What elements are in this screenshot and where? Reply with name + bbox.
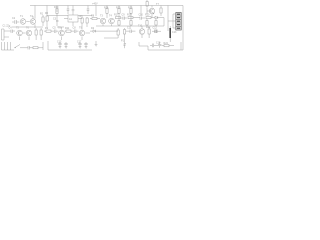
wire C9 bbox=[121, 17, 127, 19]
wire R23 bbox=[38, 42, 43, 50]
wire T7 collector bbox=[151, 6, 153, 8]
resistor R6 vertical bbox=[81, 18, 83, 23]
transistor T5 internals bbox=[18, 31, 21, 36]
wire right edge bus bbox=[182, 6, 184, 51]
wire signal bus upper bbox=[47, 15, 92, 17]
svg-text:R22: R22 bbox=[146, 26, 151, 29]
wire J2 bus bbox=[2, 49, 15, 51]
capacitor C17 to ground bbox=[78, 42, 81, 47]
wire R3 bbox=[35, 28, 37, 40]
capacitor C3 bbox=[56, 21, 58, 22]
connector pins J2 bbox=[2, 42, 11, 50]
resistor R3 vertical bbox=[35, 30, 37, 35]
wire mid bus bbox=[133, 17, 140, 19]
svg-text:R15: R15 bbox=[116, 6, 121, 9]
wire C5 bbox=[56, 30, 59, 32]
wire signal bus lower-left bbox=[12, 26, 64, 28]
svg-text:R14: R14 bbox=[104, 6, 109, 9]
wire fuse feed bbox=[146, 0, 148, 8]
resistor R16b vertical bbox=[130, 21, 132, 26]
transistor T7 internals bbox=[151, 9, 154, 15]
resistor R21 vertical bbox=[117, 30, 119, 35]
wire R22 bbox=[148, 27, 150, 38]
svg-text:R20: R20 bbox=[145, 14, 150, 17]
wire U1 leads bbox=[64, 19, 82, 27]
wire R11 bbox=[65, 30, 74, 32]
potentiometer P1 bbox=[123, 42, 126, 48]
wire T4 emitter bbox=[111, 24, 113, 26]
wire emitter bus bbox=[96, 25, 164, 27]
svg-text:R17: R17 bbox=[114, 14, 119, 17]
capacitor C18 to ground bbox=[84, 42, 87, 47]
wire C6 bottom bbox=[67, 10, 69, 14]
wire R18 bbox=[160, 6, 162, 17]
wire R20 out bbox=[151, 17, 155, 19]
wire R8 bbox=[90, 18, 100, 20]
connector K1 dark terminal strip bbox=[176, 13, 181, 31]
ground C17 bbox=[79, 47, 82, 49]
capacitor C13 vertical dark bbox=[169, 28, 171, 38]
ground G1 bbox=[95, 41, 98, 47]
transistor T9 bbox=[79, 30, 85, 36]
transistor T3 internals bbox=[102, 19, 105, 23]
wire C3 bbox=[56, 18, 58, 26]
wire rail drop at x=88 bbox=[87, 6, 89, 10]
transistor T10 internals bbox=[141, 29, 144, 34]
wire output node bbox=[167, 6, 169, 32]
wire R15b bbox=[118, 18, 120, 26]
wire D1 out bbox=[158, 18, 164, 26]
transistor T1 bbox=[20, 19, 26, 25]
wire R15 bottom bbox=[118, 13, 120, 18]
wire T10 bbox=[141, 26, 143, 38]
svg-text:C10: C10 bbox=[139, 14, 144, 17]
svg-text:R16: R16 bbox=[128, 6, 133, 9]
wire feedback bbox=[104, 28, 118, 38]
svg-text:R10: R10 bbox=[54, 6, 59, 9]
wire T7 emitter down bbox=[151, 14, 153, 18]
fuse F1 on rail bbox=[146, 2, 148, 7]
wire C7 bottom bbox=[87, 10, 89, 14]
wire R9 bbox=[44, 30, 54, 32]
transistor T10 bbox=[139, 29, 145, 35]
wire C6b bottom bbox=[72, 11, 74, 15]
resistor R11 horizontal bbox=[66, 30, 71, 32]
wire C13 bbox=[169, 26, 171, 42]
wire R2 bbox=[42, 15, 44, 26]
wire C14 bbox=[29, 47, 33, 49]
transistor T4 bbox=[109, 18, 115, 24]
diode D2 bbox=[93, 30, 96, 33]
capacitor C20 bbox=[152, 44, 153, 48]
wire C12 bbox=[152, 30, 161, 32]
resistor R20 horizontal bbox=[146, 17, 151, 19]
wire R14 bottom bbox=[106, 13, 108, 18]
wire R25 bbox=[146, 19, 148, 26]
capacitor C6b bbox=[72, 10, 75, 11]
transistor T5 bbox=[17, 30, 23, 36]
wire C10 bbox=[141, 17, 145, 19]
capacitor C10 bbox=[140, 17, 141, 20]
wire R16b bbox=[130, 18, 132, 26]
wire rail drop at x=96 bbox=[95, 6, 97, 17]
wire rail drop at x=131 bbox=[130, 6, 132, 10]
svg-text:T10: T10 bbox=[138, 25, 143, 28]
wire C4 bbox=[9, 30, 15, 32]
transistor T4 internals bbox=[110, 19, 113, 23]
wire x75 drop bbox=[72, 6, 74, 10]
capacitor C12 electrolytic bbox=[155, 30, 157, 34]
wire C11 bbox=[126, 30, 135, 32]
wire T9 bbox=[82, 27, 90, 40]
resistor R25 vertical bbox=[146, 21, 148, 26]
resistor R26 vertical bbox=[155, 21, 157, 26]
capacitor C7 bbox=[87, 9, 90, 10]
wire T3 emitter bbox=[102, 24, 104, 26]
wire R4 bbox=[46, 15, 48, 27]
resistor R4 vertical bbox=[46, 16, 48, 21]
wire rail drop at x=119 bbox=[118, 6, 120, 10]
wire R27 bbox=[124, 28, 126, 42]
wire T1-T2 bbox=[26, 16, 35, 28]
wire ground bus left bbox=[48, 41, 92, 50]
resistor R22 vertical bbox=[148, 29, 150, 34]
wire T8 bbox=[61, 27, 63, 40]
wire D2 long bbox=[90, 30, 118, 32]
transistor T8 internals bbox=[60, 31, 63, 36]
wire rail drop at x=68 bbox=[67, 6, 69, 10]
capacitor C16 to ground bbox=[64, 42, 67, 47]
transistor T9 internals bbox=[81, 31, 84, 36]
wire rail drop at x=107 bbox=[106, 6, 108, 10]
wire R16 bottom bbox=[130, 13, 132, 18]
resistor R9 horizontal bbox=[46, 30, 51, 32]
resistor R10 vertical bbox=[56, 9, 58, 14]
resistor R15b vertical bbox=[118, 21, 120, 26]
svg-text:C17: C17 bbox=[77, 41, 82, 44]
transistor T6 internals bbox=[28, 31, 31, 36]
svg-text:C11: C11 bbox=[127, 27, 132, 30]
transistor T6 bbox=[26, 30, 32, 36]
wire K1 leads bbox=[168, 14, 177, 28]
wire rail drop at x=35 bbox=[34, 6, 36, 17]
wire R26 bbox=[155, 19, 157, 26]
wire R7 bbox=[86, 17, 88, 27]
capacitor C9 bbox=[123, 17, 124, 20]
resistor R24 horizontal bbox=[164, 45, 169, 47]
svg-text:C15: C15 bbox=[57, 41, 62, 44]
wire R5 bbox=[40, 28, 42, 40]
transistor T1 internals bbox=[22, 19, 25, 23]
wire V+ top rail bbox=[30, 5, 183, 7]
capacitor C8 bbox=[75, 30, 76, 34]
ground C15 bbox=[59, 47, 62, 49]
svg-text:+40V: +40V bbox=[92, 2, 98, 5]
switch S1 bbox=[14, 45, 22, 48]
wire bottom right feed bbox=[139, 42, 183, 50]
resistor R15 vertical bbox=[118, 8, 120, 13]
resistor R5 vertical bbox=[40, 30, 42, 35]
svg-text:C12: C12 bbox=[153, 27, 158, 30]
wire R10 bottom bbox=[56, 14, 58, 19]
wire rail drop at x=47 bbox=[46, 6, 48, 16]
wire T5-T6 bbox=[20, 33, 30, 40]
svg-text:C13: C13 bbox=[172, 31, 177, 34]
wire rail drop at x=57 bbox=[56, 6, 58, 13]
capacitor C2 bbox=[15, 20, 16, 24]
resistor R19 horizontal bbox=[128, 17, 133, 19]
capacitor C6 bbox=[67, 9, 70, 10]
ground C18 bbox=[85, 47, 88, 49]
bracket input jack J1 bbox=[2, 29, 5, 40]
diode D1 bbox=[155, 16, 158, 19]
svg-text:R19: R19 bbox=[127, 14, 132, 17]
capacitor C4 bbox=[11, 30, 12, 34]
wire C2 bbox=[12, 21, 19, 23]
resistor R7 vertical bbox=[86, 18, 88, 23]
transistor T8 bbox=[59, 30, 65, 36]
IC box U1 bbox=[68, 15, 78, 22]
wire rail drop at x=141 bbox=[140, 6, 142, 17]
svg-text:R11: R11 bbox=[65, 27, 70, 30]
capacitor C11 bbox=[130, 30, 131, 34]
wire S1 bbox=[22, 47, 28, 49]
wire C20 bbox=[150, 45, 158, 47]
wire right drop bbox=[180, 42, 182, 50]
capacitor C14 bbox=[28, 46, 29, 50]
wire R6 bbox=[81, 17, 83, 27]
wire C8 bbox=[76, 30, 79, 32]
wire R24 bbox=[162, 45, 174, 47]
resistor R8 horizontal bbox=[92, 18, 97, 20]
resistor R17 horizontal bbox=[116, 17, 121, 19]
transistor T2 internals bbox=[32, 19, 35, 23]
resistor R16 vertical bbox=[130, 8, 132, 13]
ground C16 bbox=[65, 47, 68, 49]
resistor R14 vertical bbox=[106, 8, 108, 13]
transistor T7 bbox=[149, 8, 155, 14]
resistor R27 vertical bbox=[123, 30, 125, 35]
capacitor C19 bbox=[158, 42, 161, 48]
svg-text:C19: C19 bbox=[156, 42, 161, 45]
resistor R18 vertical bbox=[160, 8, 162, 13]
wire T2 collector tie bbox=[32, 16, 34, 18]
svg-text:R24: R24 bbox=[164, 42, 169, 45]
wire J1 bbox=[4, 31, 9, 37]
capacitor C5 bbox=[55, 30, 56, 34]
wire T7 base bbox=[147, 8, 151, 14]
transistor T2 bbox=[30, 19, 36, 25]
capacitor C15 to ground bbox=[58, 42, 61, 47]
resistor R2 vertical bbox=[42, 17, 44, 22]
resistor R23 horizontal bbox=[33, 47, 38, 49]
transistor T3 bbox=[100, 18, 106, 24]
